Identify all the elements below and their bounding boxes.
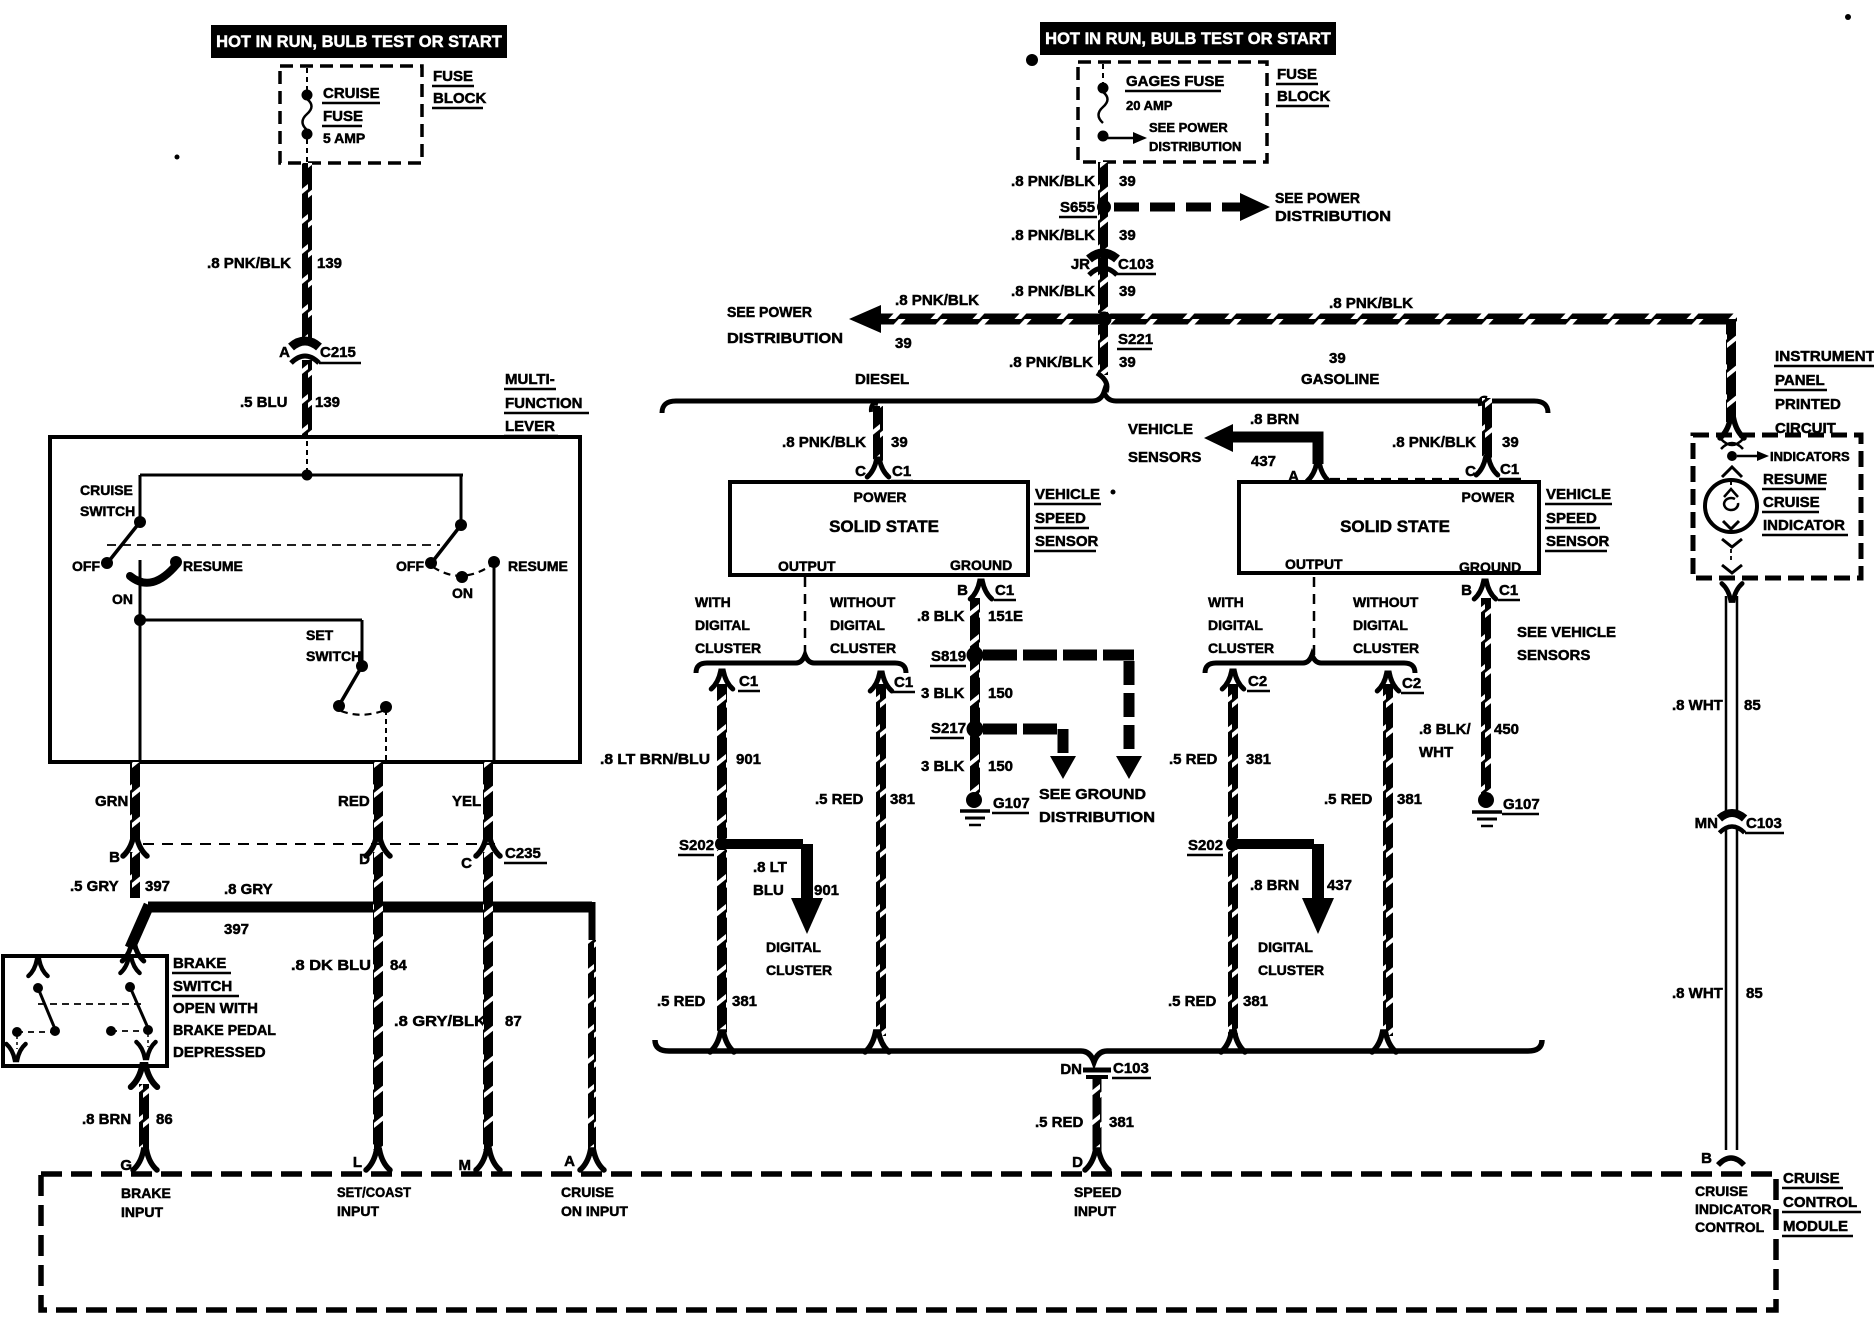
svg-text:.8 PNK/BLK: .8 PNK/BLK [1011, 283, 1095, 300]
svg-text:MODULE: MODULE [1783, 1218, 1848, 1235]
svg-text:FUSE: FUSE [1277, 66, 1317, 83]
svg-text:437: 437 [1251, 453, 1276, 470]
svg-text:CLUSTER: CLUSTER [830, 640, 896, 656]
svg-text:DIGITAL: DIGITAL [695, 617, 750, 633]
svg-text:C1: C1 [892, 463, 911, 480]
svg-text:DEPRESSED: DEPRESSED [173, 1044, 266, 1061]
svg-text:SPEED: SPEED [1035, 510, 1086, 527]
svg-text:5 AMP: 5 AMP [323, 130, 365, 146]
svg-text:BLU: BLU [753, 882, 784, 899]
svg-text:.8 BLK/: .8 BLK/ [1419, 721, 1472, 738]
svg-text:OUTPUT: OUTPUT [1285, 556, 1343, 572]
svg-text:39: 39 [1119, 283, 1136, 300]
svg-text:901: 901 [814, 882, 839, 899]
svg-text:A: A [564, 1153, 575, 1170]
svg-text:SWITCH: SWITCH [173, 978, 232, 995]
svg-text:C235: C235 [505, 845, 541, 862]
svg-text:437: 437 [1327, 877, 1352, 894]
svg-text:.8 BRN: .8 BRN [1250, 411, 1299, 428]
svg-text:C1: C1 [995, 582, 1014, 599]
svg-text:.8 BLK: .8 BLK [917, 608, 965, 625]
svg-text:C: C [461, 855, 472, 872]
svg-text:BRAKE: BRAKE [173, 955, 226, 972]
svg-text:WITH: WITH [1208, 594, 1244, 610]
svg-text:OFF: OFF [396, 558, 424, 574]
svg-text:150: 150 [988, 685, 1013, 702]
svg-text:.8 PNK/BLK: .8 PNK/BLK [1011, 173, 1095, 190]
svg-text:.5 RED: .5 RED [657, 993, 706, 1010]
svg-text:POWER: POWER [854, 489, 907, 505]
svg-text:DN: DN [1060, 1061, 1082, 1078]
svg-text:INDICATOR: INDICATOR [1695, 1201, 1771, 1217]
svg-text:SENSORS: SENSORS [1517, 647, 1590, 664]
svg-text:CRUISE: CRUISE [80, 482, 133, 498]
svg-text:C: C [1465, 463, 1476, 480]
svg-text:381: 381 [1109, 1114, 1134, 1131]
svg-text:WITHOUT: WITHOUT [830, 594, 896, 610]
svg-text:901: 901 [736, 751, 761, 768]
svg-text:S221: S221 [1118, 331, 1153, 348]
svg-text:INPUT: INPUT [337, 1203, 379, 1219]
svg-text:DISTRIBUTION: DISTRIBUTION [1039, 809, 1155, 826]
svg-text:3 BLK: 3 BLK [921, 758, 965, 775]
svg-text:G107: G107 [1503, 796, 1540, 813]
svg-text:C103: C103 [1746, 815, 1782, 832]
svg-text:.8 PNK/BLK: .8 PNK/BLK [782, 434, 866, 451]
svg-text:CIRCUIT: CIRCUIT [1775, 420, 1836, 437]
svg-text:RED: RED [338, 793, 370, 810]
svg-text:BLOCK: BLOCK [1277, 88, 1330, 105]
svg-text:PANEL: PANEL [1775, 372, 1825, 389]
svg-text:.8 PNK/BLK: .8 PNK/BLK [1392, 434, 1476, 451]
svg-text:SEE POWER: SEE POWER [1149, 120, 1228, 135]
svg-text:84: 84 [390, 957, 407, 974]
svg-text:GROUND: GROUND [1459, 559, 1521, 575]
svg-text:CRUISE: CRUISE [1783, 1170, 1840, 1187]
svg-text:INDICATOR: INDICATOR [1763, 517, 1845, 534]
svg-text:MULTI-: MULTI- [505, 371, 555, 388]
svg-text:CLUSTER: CLUSTER [766, 962, 832, 978]
svg-text:L: L [353, 1154, 362, 1171]
svg-text:S655: S655 [1060, 199, 1095, 216]
svg-text:S217: S217 [931, 720, 966, 737]
svg-text:C1: C1 [1499, 582, 1518, 599]
svg-text:DISTRIBUTION: DISTRIBUTION [1149, 139, 1241, 154]
svg-text:DIGITAL: DIGITAL [1208, 617, 1263, 633]
svg-text:C1: C1 [1500, 461, 1519, 478]
svg-text:S202: S202 [1188, 837, 1223, 854]
svg-text:.8 PNK/BLK: .8 PNK/BLK [1009, 354, 1093, 371]
svg-text:.8 GRY/BLK: .8 GRY/BLK [394, 1013, 486, 1030]
svg-text:.8 BRN: .8 BRN [1250, 877, 1299, 894]
svg-text:450: 450 [1494, 721, 1519, 738]
svg-text:DIGITAL: DIGITAL [1258, 939, 1313, 955]
svg-text:CONTROL: CONTROL [1783, 1194, 1857, 1211]
svg-text:B: B [1701, 1150, 1712, 1167]
svg-text:WITH: WITH [695, 594, 731, 610]
svg-text:.8 WHT: .8 WHT [1672, 985, 1723, 1002]
svg-text:39: 39 [891, 434, 908, 451]
svg-text:397: 397 [145, 878, 170, 895]
svg-text:S819: S819 [931, 648, 966, 665]
svg-text:381: 381 [1246, 751, 1271, 768]
svg-text:.8 GRY: .8 GRY [224, 881, 273, 898]
svg-text:SET/COAST: SET/COAST [337, 1184, 411, 1200]
svg-text:.8 PNK/BLK: .8 PNK/BLK [895, 292, 979, 309]
svg-text:D: D [1072, 1154, 1083, 1171]
svg-text:VEHICLE: VEHICLE [1035, 486, 1100, 503]
svg-text:139: 139 [315, 394, 340, 411]
svg-text:DIESEL: DIESEL [855, 371, 909, 388]
svg-text:C103: C103 [1118, 256, 1154, 273]
svg-text:381: 381 [890, 791, 915, 808]
svg-text:RESUME: RESUME [1763, 471, 1827, 488]
svg-text:B: B [1461, 582, 1472, 599]
svg-text:GRN: GRN [95, 793, 128, 810]
svg-text:3 BLK: 3 BLK [921, 685, 965, 702]
svg-text:WHT: WHT [1419, 744, 1453, 761]
svg-text:381: 381 [1243, 993, 1268, 1010]
svg-text:SOLID STATE: SOLID STATE [1340, 517, 1450, 536]
svg-text:CRUISE: CRUISE [323, 85, 380, 102]
svg-text:ON: ON [452, 585, 473, 601]
svg-text:VEHICLE: VEHICLE [1128, 421, 1193, 438]
svg-text:.8 PNK/BLK: .8 PNK/BLK [207, 255, 291, 272]
svg-text:HOT IN RUN, BULB TEST OR START: HOT IN RUN, BULB TEST OR START [216, 33, 502, 51]
svg-text:SET: SET [306, 627, 334, 643]
svg-text:CRUISE: CRUISE [561, 1184, 614, 1200]
svg-text:.5 BLU: .5 BLU [240, 394, 288, 411]
svg-text:SENSOR: SENSOR [1035, 533, 1099, 550]
svg-text:C215: C215 [320, 344, 356, 361]
svg-text:DISTRIBUTION: DISTRIBUTION [727, 330, 843, 347]
svg-text:FUNCTION: FUNCTION [505, 395, 583, 412]
svg-text:YEL: YEL [452, 793, 481, 810]
svg-text:B: B [957, 582, 968, 599]
svg-text:BRAKE: BRAKE [121, 1185, 171, 1201]
svg-text:39: 39 [1502, 434, 1519, 451]
svg-text:SOLID STATE: SOLID STATE [829, 517, 939, 536]
svg-text:SEE GROUND: SEE GROUND [1039, 786, 1146, 803]
svg-text:GAGES FUSE: GAGES FUSE [1126, 73, 1224, 90]
svg-text:SEE POWER: SEE POWER [1275, 190, 1360, 207]
svg-text:DIGITAL: DIGITAL [1353, 617, 1408, 633]
svg-text:86: 86 [156, 1111, 173, 1128]
svg-text:JR: JR [1071, 256, 1090, 273]
svg-text:G107: G107 [993, 795, 1030, 812]
svg-text:SWITCH: SWITCH [306, 648, 361, 664]
svg-text:C103: C103 [1113, 1060, 1149, 1077]
svg-text:ON: ON [112, 591, 133, 607]
svg-text:INSTRUMENT: INSTRUMENT [1775, 348, 1874, 365]
svg-text:39: 39 [1119, 354, 1136, 371]
svg-text:381: 381 [732, 993, 757, 1010]
svg-text:DIGITAL: DIGITAL [766, 939, 821, 955]
svg-text:DISTRIBUTION: DISTRIBUTION [1275, 208, 1391, 225]
svg-text:CLUSTER: CLUSTER [1353, 640, 1419, 656]
svg-text:139: 139 [317, 255, 342, 272]
svg-text:SEE POWER: SEE POWER [727, 304, 812, 321]
svg-text:B: B [109, 849, 120, 866]
svg-text:FUSE: FUSE [433, 68, 473, 85]
svg-text:SENSOR: SENSOR [1546, 533, 1610, 550]
svg-text:39: 39 [1119, 173, 1136, 190]
svg-text:87: 87 [505, 1013, 522, 1030]
svg-text:VEHICLE: VEHICLE [1546, 486, 1611, 503]
svg-text:.5 RED: .5 RED [815, 791, 864, 808]
svg-text:INDICATORS: INDICATORS [1770, 449, 1850, 464]
svg-text:SWITCH: SWITCH [80, 503, 135, 519]
svg-text:381: 381 [1397, 791, 1422, 808]
svg-text:D: D [359, 851, 370, 868]
svg-text:INPUT: INPUT [121, 1204, 163, 1220]
svg-text:C1: C1 [894, 674, 913, 691]
svg-text:INPUT: INPUT [1074, 1203, 1116, 1219]
svg-text:GROUND: GROUND [950, 557, 1012, 573]
svg-text:.8 WHT: .8 WHT [1672, 697, 1723, 714]
svg-text:OFF: OFF [72, 558, 100, 574]
svg-text:20 AMP: 20 AMP [1126, 98, 1173, 113]
svg-text:BLOCK: BLOCK [433, 90, 486, 107]
svg-text:DIGITAL: DIGITAL [830, 617, 885, 633]
svg-text:S202: S202 [679, 837, 714, 854]
svg-text:SEE VEHICLE: SEE VEHICLE [1517, 624, 1616, 641]
svg-text:CLUSTER: CLUSTER [1258, 962, 1324, 978]
svg-text:39: 39 [895, 335, 912, 352]
svg-text:.8 DK BLU: .8 DK BLU [291, 957, 371, 974]
svg-text:GASOLINE: GASOLINE [1301, 371, 1379, 388]
svg-text:39: 39 [1119, 227, 1136, 244]
svg-text:SPEED: SPEED [1074, 1184, 1121, 1200]
svg-text:CRUISE: CRUISE [1695, 1183, 1748, 1199]
svg-text:.5 RED: .5 RED [1169, 751, 1218, 768]
svg-text:ON INPUT: ON INPUT [561, 1203, 628, 1219]
svg-text:CLUSTER: CLUSTER [695, 640, 761, 656]
svg-text:CRUISE: CRUISE [1763, 494, 1820, 511]
svg-text:.8 PNK/BLK: .8 PNK/BLK [1011, 227, 1095, 244]
svg-text:39: 39 [1329, 350, 1346, 367]
svg-text:C: C [855, 463, 866, 480]
svg-text:.8 BRN: .8 BRN [82, 1111, 131, 1128]
svg-text:.5 RED: .5 RED [1324, 791, 1373, 808]
svg-text:SENSORS: SENSORS [1128, 449, 1201, 466]
svg-text:85: 85 [1744, 697, 1761, 714]
svg-text:C2: C2 [1402, 675, 1421, 692]
svg-text:PRINTED: PRINTED [1775, 396, 1841, 413]
svg-text:.8 LT BRN/BLU: .8 LT BRN/BLU [600, 751, 710, 768]
svg-text:A: A [279, 344, 290, 361]
svg-text:.8 LT: .8 LT [753, 859, 787, 876]
svg-text:85: 85 [1746, 985, 1763, 1002]
svg-text:.5 RED: .5 RED [1168, 993, 1217, 1010]
svg-text:G: G [120, 1157, 132, 1174]
svg-text:OUTPUT: OUTPUT [778, 558, 836, 574]
svg-text:CONTROL: CONTROL [1695, 1219, 1765, 1235]
svg-text:HOT IN RUN, BULB TEST OR START: HOT IN RUN, BULB TEST OR START [1045, 30, 1331, 48]
svg-text:C1: C1 [739, 673, 758, 690]
svg-text:MN: MN [1695, 815, 1718, 832]
svg-text:WITHOUT: WITHOUT [1353, 594, 1419, 610]
svg-text:151E: 151E [988, 608, 1023, 625]
svg-text:.5 RED: .5 RED [1035, 1114, 1084, 1131]
svg-text:BRAKE PEDAL: BRAKE PEDAL [173, 1022, 276, 1039]
svg-text:POWER: POWER [1462, 489, 1515, 505]
svg-text:RESUME: RESUME [508, 558, 568, 574]
svg-text:397: 397 [224, 921, 249, 938]
svg-text:.5 GRY: .5 GRY [70, 878, 119, 895]
svg-text:RESUME: RESUME [183, 558, 243, 574]
svg-text:.8 PNK/BLK: .8 PNK/BLK [1329, 295, 1413, 312]
svg-text:CLUSTER: CLUSTER [1208, 640, 1274, 656]
svg-text:LEVER: LEVER [505, 418, 555, 435]
svg-text:SPEED: SPEED [1546, 510, 1597, 527]
svg-text:150: 150 [988, 758, 1013, 775]
svg-text:C2: C2 [1248, 673, 1267, 690]
svg-text:OPEN WITH: OPEN WITH [173, 1000, 258, 1017]
svg-text:FUSE: FUSE [323, 108, 363, 125]
